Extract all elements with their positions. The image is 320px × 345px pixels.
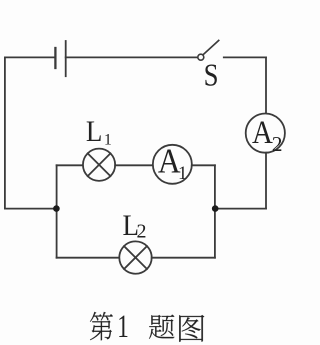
label L1 of lamp <box>86 116 112 149</box>
wire bottom-left horizontal to left node <box>5 208 57 210</box>
caption digit 1 <box>117 309 129 345</box>
wire to lamp L2 <box>57 257 120 259</box>
label L2 of lamp <box>123 210 147 243</box>
svg-text:A: A <box>252 113 273 150</box>
wire ammeter A1 to right riser <box>192 164 215 166</box>
svg-text:2: 2 <box>137 221 147 243</box>
wire from battery positive to switch <box>66 56 198 58</box>
lamp L2 circle with cross <box>119 241 151 273</box>
label A1 of ammeter (with subscript 1) <box>158 142 187 184</box>
node left junction dot <box>53 205 60 212</box>
wire lamp L1 to ammeter A1 <box>115 164 153 166</box>
wire right side down to ammeter A2 <box>265 57 267 113</box>
wire bottom-right horizontal to right node <box>215 208 266 210</box>
lamp L1 circle with cross <box>83 149 115 181</box>
wire middle branch to lamp L1 <box>57 164 83 166</box>
caption character 题 <box>149 315 174 339</box>
svg-text:1: 1 <box>117 309 129 345</box>
battery B1 short plate (negative) <box>54 48 56 68</box>
wire lamp L2 to right drop <box>152 257 215 259</box>
ammeter A2 circle <box>246 114 285 153</box>
node right junction dot <box>212 205 219 212</box>
svg-text:1: 1 <box>178 164 187 184</box>
caption character 第 <box>90 312 113 341</box>
wire left side vertical down <box>4 57 6 208</box>
battery B1 long plate (positive) <box>65 41 67 76</box>
wire left drop to lamp L2 branch <box>56 209 58 258</box>
wire top-left from battery to left side <box>5 56 56 58</box>
switch S blade (open) <box>203 41 219 55</box>
svg-text:L: L <box>86 116 102 149</box>
ammeter A1 circle <box>153 145 192 184</box>
wire left riser of middle branch <box>56 165 58 208</box>
wire from switch to top-right corner <box>224 56 266 58</box>
svg-text:2: 2 <box>272 132 283 156</box>
label S of switch <box>204 58 219 92</box>
caption character 图 <box>179 315 204 342</box>
label A2 of ammeter (with subscript 2) <box>252 113 283 156</box>
svg-text:1: 1 <box>104 132 112 149</box>
wire right drop of lamp L2 branch <box>214 209 216 258</box>
svg-text:S: S <box>204 58 219 92</box>
wire from ammeter A2 down to bottom-right corner <box>265 153 267 209</box>
switch S pivot circle <box>198 54 204 60</box>
wire right riser of middle branch <box>214 165 216 208</box>
